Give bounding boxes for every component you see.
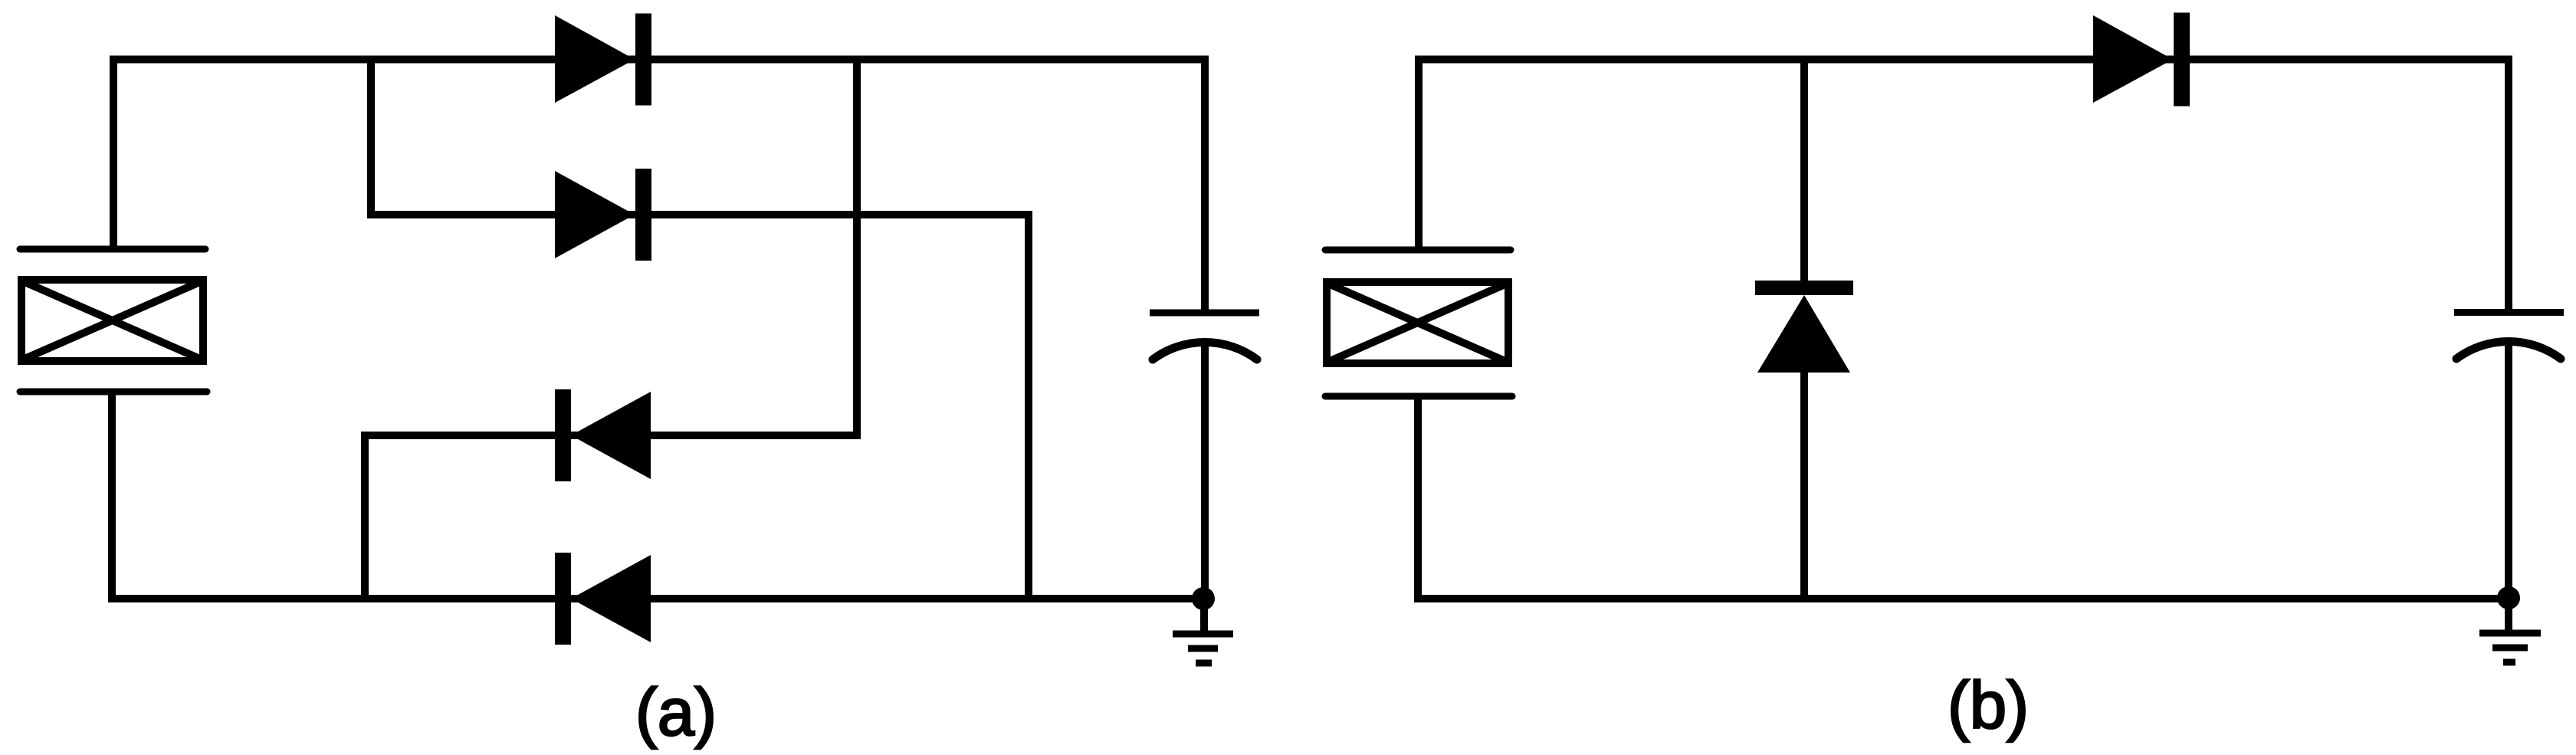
capacitor C1 curved plate <box>1153 342 1257 359</box>
capacitor C1 <box>1150 313 1259 359</box>
node: junction dot at ground of circuit (b) <box>2497 586 2520 609</box>
ground symbol (b) <box>2479 598 2541 662</box>
wire from transducer X1 bottom plate down and along bottom rail to ground node <box>112 393 1203 599</box>
transducer X2 body rectangle <box>1327 282 1508 363</box>
diode D5 (shunt diode, pointing up) <box>1755 281 1853 373</box>
transducer X2 top plate <box>1325 247 1511 254</box>
svg-text:(b): (b) <box>1948 668 2029 743</box>
wire group of circuit (b) <box>1418 56 2509 599</box>
capacitor C2 flat plate <box>2454 309 2564 316</box>
ground symbol (a) <box>1173 599 1233 663</box>
transducer X1 top plate <box>20 246 205 253</box>
wire from top rail down to diode D5 cathode bar <box>1800 56 1808 281</box>
diode D6 (top rail, pointing right) <box>2093 13 2190 107</box>
transducer X1 cross diagonal 2 <box>23 281 202 359</box>
transducer X1 bottom plate <box>20 389 207 396</box>
svg-text:(a): (a) <box>635 675 717 750</box>
wire from transducer X2 top plate up, along top rail, down to capacitor C2 <box>1419 60 2509 310</box>
wire branch from top rail down at x=1118 to D3 row, left, then down to bottom rail <box>365 56 857 599</box>
wire from capacitor C1 curved plate down to ground node <box>1201 341 1209 599</box>
wire from capacitor C2 curved plate down to ground node <box>2505 341 2512 599</box>
wire from transducer X2 bottom plate down and along bottom rail to ground node <box>1418 396 2509 599</box>
wire group of circuit (a) <box>112 56 1205 599</box>
wire branch from top rail down at x=484 and along D2 row, then down to bottom rail <box>371 56 1029 599</box>
diode D2 (second row, pointing right) <box>555 169 651 261</box>
wire from transducer X1 top plate up, along top rail, down to capacitor C1 <box>113 60 1205 310</box>
transducer X1 body rectangle <box>21 280 203 361</box>
capacitor C2 <box>2454 313 2564 359</box>
diode D1 (top rail, pointing right) <box>555 14 651 106</box>
capacitor C1 flat plate <box>1150 310 1259 317</box>
transducer X1 cross diagonal 1 <box>23 281 202 359</box>
node: junction dot at ground of circuit (a) <box>1192 587 1215 610</box>
transducer X2 cross diagonal 2 <box>1328 284 1507 362</box>
capacitor C2 curved plate <box>2456 341 2561 359</box>
wire from diode D5 anode down to bottom rail <box>1800 373 1808 599</box>
transducer X2 cross diagonal 1 <box>1328 284 1507 362</box>
diode D3 (third row, pointing left) <box>555 389 651 481</box>
transducer X2 bottom plate <box>1325 393 1512 400</box>
transducer X1 (piezo element) <box>20 249 207 392</box>
diode D4 (bottom rail, pointing left) <box>555 553 651 645</box>
transducer X2 (piezo element) <box>1325 250 1512 396</box>
